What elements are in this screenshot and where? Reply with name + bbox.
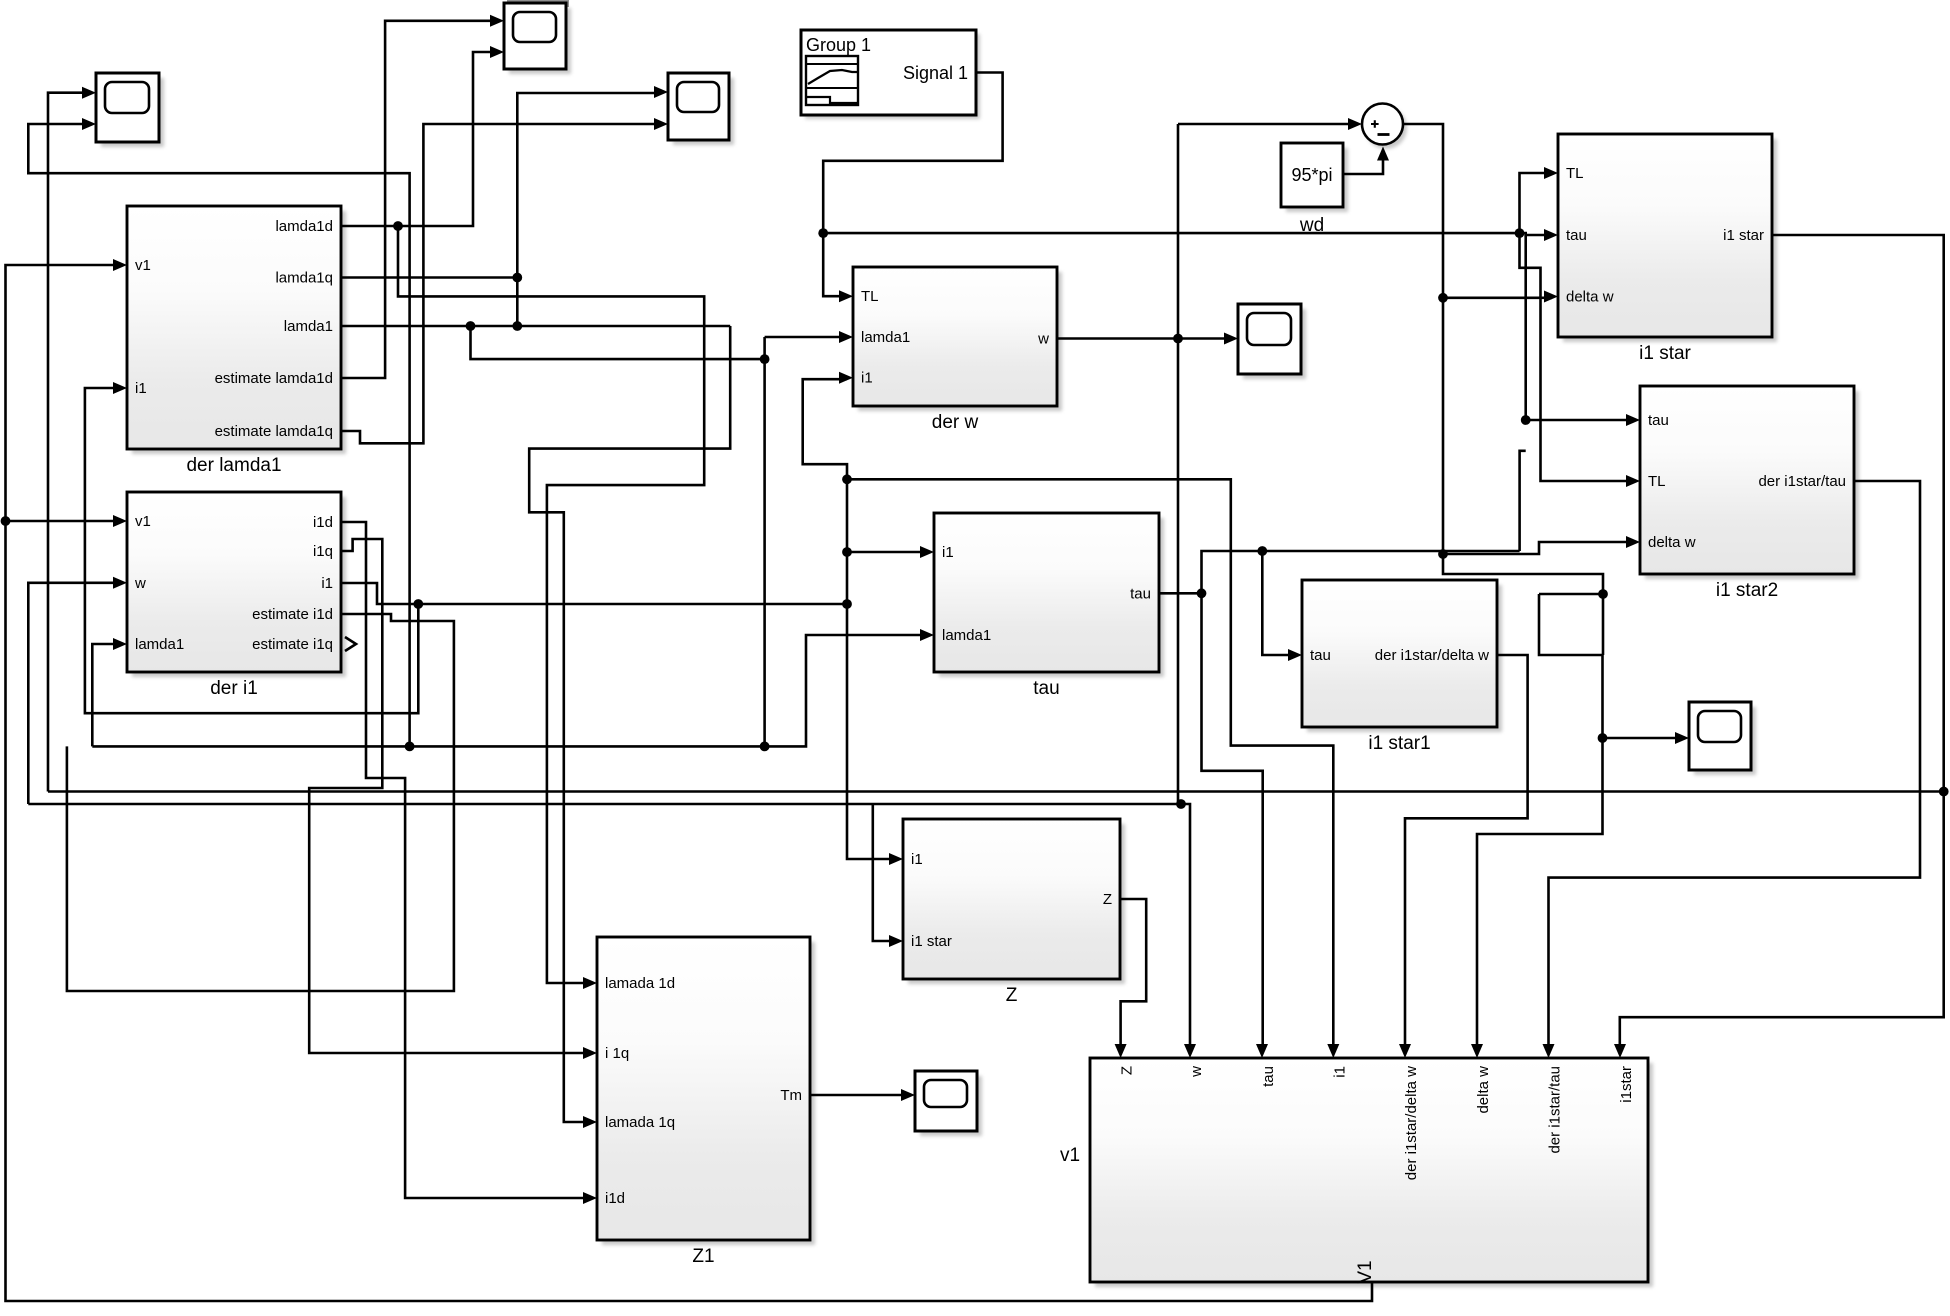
- svg-text:tau: tau: [1648, 412, 1669, 429]
- wire lamda1d (der lamda1 out -> scope2 in2, Z1 lamada 1d): [341, 52, 704, 983]
- wire estimate lamda1d (der lamda1 -> scope2 in1): [341, 21, 498, 378]
- svg-text:delta w: delta w: [1566, 289, 1614, 306]
- wire Signal 1 (Group1 -> der w TL, i1 star TL/tau, i1 star2 TL/tau): [818, 73, 1634, 482]
- svg-text:der i1star/delta w: der i1star/delta w: [1375, 647, 1489, 664]
- subsystem i1 star1: [1288, 580, 1502, 754]
- svg-text:v1: v1: [135, 257, 151, 274]
- svg-text:tau: tau: [1033, 678, 1059, 699]
- svg-text:i1: i1: [861, 370, 873, 387]
- svg-text:i1star: i1star: [1618, 1066, 1635, 1103]
- svg-text:tau: tau: [1566, 227, 1587, 244]
- svg-text:i 1q: i 1q: [605, 1045, 629, 1062]
- svg-text:i1: i1: [911, 851, 923, 868]
- scope Scope4: [1224, 304, 1306, 379]
- svg-text:i1 star: i1 star: [1723, 227, 1764, 244]
- wire i1 (der i1 out -> tau i1, Z i1, der w i1, V1 i1, der lamda1 i1): [85, 379, 1333, 1052]
- scope Scope1: [82, 73, 164, 147]
- wire Z out (Z -> V1 Z): [1120, 899, 1146, 1052]
- svg-text:lamada 1q: lamada 1q: [605, 1114, 675, 1131]
- wire der i1star/tau (i1 star2 -> V1): [1549, 481, 1921, 1052]
- wire i1 star out (i1 star -> scope1 in1, V1 i1star): [48, 93, 1949, 1052]
- svg-text:lamda1: lamda1: [861, 329, 910, 346]
- wire estimate lamda1q (der lamda1 -> scope3 in2): [341, 124, 662, 443]
- subsystem Z1: [583, 937, 815, 1267]
- wire tau (tau out -> i1 star tau via top line is separate; feeds i1 star1 tau and V1 tau): [1159, 451, 1526, 1052]
- svg-text:v1: v1: [135, 513, 151, 530]
- svg-text:der i1star/tau: der i1star/tau: [1758, 473, 1846, 490]
- svg-text:Z1: Z1: [692, 1246, 714, 1267]
- svg-text:v1: v1: [1060, 1145, 1080, 1166]
- svg-text:i1: i1: [1331, 1066, 1348, 1078]
- svg-text:TL: TL: [861, 288, 879, 305]
- wire i1 star to Z input: [873, 804, 897, 941]
- svg-text:delta w: delta w: [1475, 1066, 1492, 1114]
- svg-text:Tm: Tm: [780, 1087, 802, 1104]
- sum junction (+/-): [1348, 104, 1407, 150]
- svg-text:tau: tau: [1260, 1066, 1277, 1087]
- scope Scope6: [901, 1071, 982, 1136]
- svg-text:der w: der w: [932, 412, 979, 433]
- svg-text:lamda1: lamda1: [942, 627, 991, 644]
- svg-text:lamada 1d: lamada 1d: [605, 975, 675, 992]
- svg-text:i1: i1: [942, 544, 954, 561]
- svg-text:i1d: i1d: [313, 514, 333, 531]
- svg-text:TL: TL: [1566, 165, 1584, 182]
- svg-text:95*pi: 95*pi: [1291, 165, 1332, 185]
- svg-text:lamda1: lamda1: [135, 636, 184, 653]
- subsystem Z: [889, 819, 1125, 1006]
- svg-text:TL: TL: [1648, 473, 1666, 490]
- svg-text:der i1star/tau: der i1star/tau: [1547, 1066, 1564, 1154]
- scope Scope5: [1675, 702, 1756, 775]
- svg-text:delta w: delta w: [1648, 534, 1696, 551]
- svg-text:i1 star1: i1 star1: [1368, 733, 1430, 754]
- wire w (der w out -> scope4, sum +, V1 w, der i1 w): [28, 124, 1356, 1052]
- svg-text:Z: Z: [1006, 985, 1018, 1006]
- subsystem der i1: [113, 492, 346, 699]
- wire v1 net (V1 output to der lamda1 v1 / der i1 v1): [1, 265, 1372, 1301]
- svg-text:w: w: [1188, 1066, 1205, 1078]
- svg-text:i1 star2: i1 star2: [1716, 580, 1778, 601]
- wire wd constant to sum (-): [1343, 147, 1389, 175]
- svg-text:estimate i1q: estimate i1q: [252, 636, 333, 653]
- subsystem tau: [920, 513, 1164, 699]
- subsystem i1 star2: [1626, 386, 1859, 601]
- signal builder Group 1 (Signal 1): [801, 30, 980, 119]
- subsystem i1 star: [1544, 134, 1777, 364]
- subsystem der lamda1: [113, 206, 346, 476]
- svg-text:estimate lamda1q: estimate lamda1q: [215, 423, 333, 440]
- svg-text:tau: tau: [1130, 585, 1151, 602]
- svg-text:lamda1q: lamda1q: [275, 270, 333, 287]
- svg-text:der lamda1: der lamda1: [186, 455, 281, 476]
- svg-text:i1 star: i1 star: [1639, 343, 1691, 364]
- svg-text:w: w: [134, 575, 146, 592]
- svg-text:i1: i1: [321, 575, 333, 592]
- svg-text:V1: V1: [1355, 1260, 1376, 1283]
- svg-text:estimate i1d: estimate i1d: [252, 606, 333, 623]
- wire estimate i1d (der i1 -> loop left): [67, 614, 454, 991]
- wire delta w (sum out -> i1 star delta w, i1 star2 delta w, scope5, V1 delta w): [1403, 124, 1683, 1052]
- wire i1q (der i1 -> Z1 i 1q): [309, 539, 591, 1053]
- svg-text:i1 star: i1 star: [911, 933, 952, 950]
- svg-text:tau: tau: [1310, 647, 1331, 664]
- svg-text:lamda1d: lamda1d: [275, 218, 333, 235]
- svg-text:Z: Z: [1103, 891, 1112, 908]
- constant wd (95*pi): [1281, 143, 1348, 236]
- scope Scope3: [654, 73, 734, 145]
- svg-text:i1q: i1q: [313, 543, 333, 560]
- wire i1d (der i1 -> Z1 i1d): [341, 522, 591, 1198]
- svg-text:der i1star/delta w: der i1star/delta w: [1403, 1066, 1420, 1180]
- svg-text:estimate lamda1d: estimate lamda1d: [215, 370, 333, 387]
- subsystem V1: [1060, 1044, 1653, 1287]
- svg-text:der i1: der i1: [210, 678, 258, 699]
- svg-text:Z: Z: [1119, 1066, 1136, 1075]
- svg-text:Signal 1: Signal 1: [903, 63, 968, 83]
- unconnected port chevron (estimate i1q): [345, 637, 356, 651]
- scope Scope2: [490, 0, 571, 74]
- svg-text:i1: i1: [135, 380, 147, 397]
- subsystem der w: [839, 267, 1062, 433]
- svg-text:w: w: [1037, 331, 1049, 348]
- wire lamda1 (der lamda1 out -> der i1, der w, tau, scope1 in2, Z1 lamada 1q): [28, 124, 928, 1122]
- svg-text:lamda1: lamda1: [284, 318, 333, 335]
- wire lamda1q (der lamda1 out -> scope3 in1): [341, 93, 662, 326]
- svg-text:i1d: i1d: [605, 1190, 625, 1207]
- svg-text:Group 1: Group 1: [806, 35, 871, 55]
- wire Tm (Z1 -> Scope6): [810, 1094, 909, 1097]
- wire der i1star/delta w (i1 star1 -> V1): [1405, 655, 1528, 1052]
